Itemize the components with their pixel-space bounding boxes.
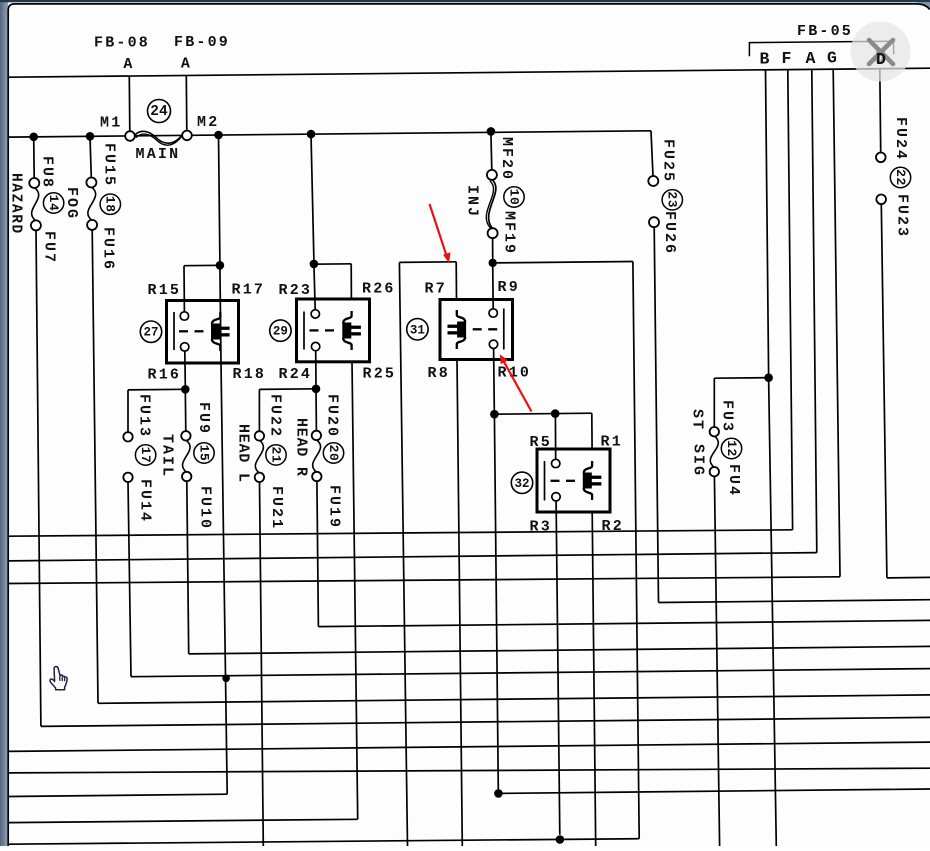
wire R18 column: [221, 363, 227, 794]
relay 31 box: [440, 300, 513, 360]
svg-text:R17: R17: [232, 281, 266, 298]
wire R25 column: [352, 362, 358, 820]
svg-text:FOG: FOG: [63, 187, 80, 220]
wire bottom horizontal (H14): [9, 839, 639, 845]
relay 29 box: [297, 299, 370, 362]
relay 29 contact bar: [303, 312, 305, 350]
wire FU10 horizontal to right edge (H6): [189, 646, 930, 654]
wire FU14 horizontal to right edge (H7): [131, 669, 930, 677]
top dark blue edge line: [0, 0, 930, 2]
wire pin B column lower: [769, 378, 777, 846]
value circle 22: [890, 167, 910, 187]
wire FU21 column lower: [260, 482, 264, 846]
relay 31 dashed link: [473, 328, 482, 330]
wire FU23 column lower: [881, 204, 887, 578]
wire FU19 horizontal to right edge (H5): [318, 620, 930, 626]
fusible link INJ element: [489, 180, 496, 229]
fuse FU4 terminal: [710, 467, 719, 476]
wire FU10 column lower: [187, 481, 189, 654]
wire B to FU3 elbow: [714, 377, 768, 380]
relay 32 contact bar: [544, 461, 546, 501]
red arrow 2: [500, 354, 532, 411]
fuse FU3 terminal: [710, 427, 719, 436]
svg-text:TAIL: TAIL: [159, 434, 176, 478]
junction dot R10/H12b: [494, 789, 503, 798]
value circle 18: [100, 194, 120, 214]
wire horizontal full width (H10): [9, 742, 930, 751]
junction dot bus/relay27 feed: [214, 131, 223, 140]
fuse FU26 terminal: [649, 217, 659, 227]
svg-text:31: 31: [410, 323, 425, 337]
svg-text:FU25: FU25: [660, 139, 677, 183]
wire FU19 column lower: [317, 481, 319, 627]
svg-text:FU9: FU9: [195, 402, 212, 435]
wire relay27 coil column: [220, 265, 221, 363]
junction dot R18/H7: [222, 675, 230, 683]
junction dot R3/H14: [556, 835, 565, 844]
fuse FU19 terminal: [312, 472, 321, 481]
svg-text:R18: R18: [233, 366, 267, 383]
relay 29 dashed link: [310, 329, 319, 331]
fuse FU9 terminal: [181, 431, 190, 440]
value circle 12 (ST SIG): [721, 438, 741, 458]
wire R24 to FU22 elbow: [259, 388, 316, 391]
svg-text:R1: R1: [601, 434, 623, 451]
svg-text:FU15: FU15: [101, 143, 118, 187]
svg-text:FB-05: FB-05: [797, 23, 853, 40]
junction dot B/FU3: [764, 373, 773, 382]
svg-text:R16: R16: [148, 367, 182, 384]
value circle 15: [194, 443, 214, 463]
svg-text:17: 17: [138, 447, 153, 464]
relay 27 contact bar: [173, 312, 175, 350]
wire R10 column lower: [494, 414, 498, 789]
relay 32 coil: [584, 461, 592, 473]
wire R15 drop: [183, 266, 185, 312]
junction dot bus/relay29 feed: [307, 130, 316, 139]
svg-text:14: 14: [46, 195, 61, 212]
fuse MF19 terminal: [488, 228, 498, 238]
svg-text:R3: R3: [530, 519, 552, 536]
svg-text:R23: R23: [279, 282, 313, 299]
wire MF19 to junction: [492, 238, 494, 259]
hand cursor: [50, 667, 67, 690]
fuse FU24 terminal: [876, 153, 886, 163]
relay 27 coil: [212, 312, 220, 324]
svg-text:FU13: FU13: [136, 394, 153, 438]
svg-text:M1: M1: [100, 115, 122, 132]
terminal M2: [182, 131, 192, 141]
wire R23 drop: [314, 264, 315, 310]
svg-text:INJ: INJ: [464, 185, 481, 218]
fuse FU20/FU19 element: [313, 440, 321, 473]
wire pin A column: [812, 69, 817, 552]
wire R5 drop: [554, 414, 556, 464]
wire R3 column: [556, 501, 560, 835]
wire FU20 feed: [315, 389, 317, 431]
svg-text:FU19: FU19: [326, 485, 343, 529]
relay 32 box: [537, 449, 610, 512]
wire horizontal full width (H11): [9, 768, 930, 773]
wire MF20 feed: [490, 131, 493, 170]
relay 31 pin circle R9: [489, 309, 497, 317]
relay 27 pin circle R15: [180, 312, 188, 320]
svg-text:MAIN: MAIN: [136, 146, 181, 163]
wire pin G column: [833, 69, 840, 577]
fuse FU21 terminal: [255, 473, 264, 482]
wire R10 junction node: [490, 410, 499, 419]
svg-text:FU16: FU16: [100, 227, 117, 271]
fuse FU8 terminal: [29, 178, 39, 188]
wire top feeder line: [9, 68, 930, 77]
svg-text:F: F: [781, 49, 793, 68]
fuse MF20 terminal: [487, 170, 497, 180]
svg-text:FB-08: FB-08: [94, 35, 150, 52]
relay 29 pin circle R23: [311, 310, 319, 318]
fuse FU10 terminal: [182, 472, 191, 481]
wire HAZARD horizontal to right edge (H9): [41, 717, 930, 726]
wire pin F column: [788, 70, 793, 530]
wire FU9 feed: [184, 389, 187, 431]
junction dot bus/HAZARD: [29, 133, 38, 142]
wire pin B column: [766, 70, 769, 374]
wire relay27 elbow to R15: [184, 264, 220, 266]
svg-text:18: 18: [103, 196, 118, 213]
svg-text:R15: R15: [148, 282, 182, 299]
wire FU23 to right edge: [887, 576, 930, 579]
svg-text:FB-09: FB-09: [174, 34, 230, 51]
junction dot relay29 feed: [310, 260, 319, 269]
value circle 17 (TAIL fuse): [135, 445, 155, 465]
junction dot MF19 node: [489, 259, 497, 267]
svg-text:FU20: FU20: [324, 394, 341, 438]
svg-text:FU24: FU24: [892, 117, 909, 161]
svg-text:M2: M2: [197, 114, 219, 131]
wire R2 column: [592, 512, 596, 846]
junction dot relay27 feed: [216, 261, 225, 270]
svg-text:32: 32: [514, 477, 529, 491]
svg-text:FU3: FU3: [719, 400, 736, 433]
svg-text:FU21: FU21: [268, 486, 285, 530]
fuse FU16 terminal: [87, 220, 97, 230]
svg-text:MF19: MF19: [501, 211, 518, 255]
svg-text:HEAD R: HEAD R: [293, 418, 310, 477]
fuse FU20 terminal: [312, 431, 321, 440]
junction dot R5 feed: [551, 409, 560, 418]
fuse FU9/FU10 element: [182, 440, 190, 472]
fuse FU14 terminal: [123, 473, 132, 482]
wire R16 drop: [184, 351, 187, 386]
svg-text:R9: R9: [498, 279, 520, 296]
relay circle 32: [511, 472, 532, 493]
svg-text:21: 21: [268, 446, 283, 463]
wire relay32 coil drop: [591, 413, 593, 449]
svg-text:R8: R8: [428, 365, 450, 382]
wire A2 drop to M2: [185, 76, 188, 132]
relay 32 dashed link: [551, 480, 560, 482]
wire HAZARD column upper: [33, 137, 36, 179]
wire bus corner to FU25: [651, 131, 653, 176]
wire FU26 horizontal to right edge (H4): [659, 600, 930, 603]
wire FU26 column lower: [654, 227, 658, 602]
svg-text:ST: ST: [689, 409, 706, 431]
wire A1 drop to M1: [128, 76, 131, 132]
wire R18 horizontal to left border (H12a): [9, 794, 227, 796]
wire R10 horizontal to relay32: [494, 413, 591, 414]
relay 27 pin circle R16: [181, 343, 189, 351]
relay 31 contact bar: [503, 309, 505, 350]
value circle 14 (FOG fuse): [43, 193, 63, 213]
svg-text:15: 15: [196, 445, 211, 462]
red arrow 1: [430, 204, 451, 263]
fuse FU7 terminal: [31, 220, 41, 230]
svg-text:R26: R26: [362, 281, 396, 298]
wire net F horizontal (H1): [9, 530, 793, 536]
svg-text:29: 29: [273, 325, 288, 339]
relay circle 29: [270, 320, 291, 341]
svg-text:HEAD L: HEAD L: [235, 424, 252, 483]
junction dot bus/FU15: [86, 132, 95, 141]
svg-text:FU8: FU8: [39, 156, 56, 189]
svg-text:FU22: FU22: [267, 394, 284, 438]
wire main bus: [9, 131, 651, 137]
value circle 23: [662, 190, 682, 210]
wire R24 drop: [315, 351, 317, 385]
wire FU14 column lower: [128, 482, 131, 677]
top-right blue corner notch: [918, 2, 930, 9]
relay circle 27: [140, 321, 161, 342]
fuse FU3/FU4 element: [710, 436, 718, 467]
fuse FU15/FU16 element: [88, 187, 96, 220]
svg-text:FU7: FU7: [41, 231, 58, 264]
relay 31 pin circle R10: [489, 340, 497, 348]
close button: [851, 22, 911, 82]
wire pin D column: [879, 69, 882, 152]
svg-text:23: 23: [665, 191, 680, 208]
fuse FU13 terminal: [123, 432, 132, 441]
wire relay27 feed from bus: [219, 135, 220, 261]
wire net G horizontal (H3): [9, 577, 840, 584]
svg-text:FU4: FU4: [725, 464, 742, 497]
relay 31 coil: [457, 310, 465, 322]
svg-text:R2: R2: [602, 518, 624, 535]
svg-text:SIG: SIG: [690, 444, 707, 477]
wire HAZARD column lower: [36, 230, 41, 727]
relay 29 coil: [343, 311, 351, 323]
wire MF19 branch down: [633, 262, 639, 839]
wire R8 column: [457, 360, 462, 847]
terminal M1: [125, 131, 135, 141]
fuse FU15 terminal: [86, 178, 96, 188]
switch MAIN curve: [135, 131, 183, 143]
svg-text:24: 24: [150, 104, 168, 120]
fuse FU22/FU21 element: [255, 440, 263, 473]
svg-text:FU14: FU14: [137, 479, 154, 523]
wire FU16 column lower: [92, 229, 98, 703]
svg-text:HAZARD: HAZARD: [8, 173, 24, 235]
value circle 10 (INJ): [504, 187, 524, 207]
svg-text:MF20: MF20: [498, 137, 515, 181]
svg-text:A: A: [181, 56, 192, 73]
svg-text:G: G: [827, 49, 839, 68]
fuse FU25 terminal: [648, 176, 658, 186]
svg-text:R24: R24: [279, 366, 313, 383]
fuse FU8/FU7 element: [32, 188, 39, 221]
relay 27 box: [167, 301, 239, 364]
wire net A horizontal (H2): [9, 553, 817, 561]
wire relay31 elbow to coil: [399, 261, 456, 264]
svg-text:R5: R5: [530, 434, 552, 451]
fuse FU22 terminal: [255, 431, 264, 440]
value circle 21: [266, 445, 286, 465]
junction dot bus/MF20: [487, 127, 496, 136]
relay circle 31: [407, 319, 428, 340]
relay 27 dashed link: [179, 330, 188, 332]
wire FU15 column upper: [90, 136, 91, 178]
connector FB-05 bracket: [749, 41, 893, 56]
relay 32 pin circle R3: [552, 493, 560, 501]
junction dot R16/FU9: [181, 385, 190, 394]
value circle 20: [323, 443, 343, 463]
svg-text:R25: R25: [363, 366, 397, 383]
wire relay29 elbow to coil: [314, 263, 351, 265]
svg-text:R7: R7: [425, 281, 447, 298]
svg-text:D: D: [876, 50, 886, 69]
svg-text:20: 20: [326, 445, 341, 462]
value circle 24 (MAIN): [148, 100, 171, 123]
svg-text:A: A: [805, 49, 817, 68]
wire MF19 branch right: [493, 262, 633, 263]
svg-text:12: 12: [724, 440, 739, 457]
svg-text:22: 22: [893, 169, 908, 186]
wire R10 horizontal to right edge (H12b): [498, 789, 930, 793]
svg-text:A: A: [123, 56, 134, 73]
fuse FU23 terminal: [876, 195, 886, 205]
relay 29 pin circle R24: [311, 342, 319, 350]
junction dot R24/FU20: [312, 385, 321, 394]
wire relay29 feed from bus: [311, 134, 314, 260]
svg-text:FU10: FU10: [197, 486, 214, 530]
wire R9 drop: [492, 263, 495, 309]
svg-text:27: 27: [143, 326, 158, 340]
relay 32 pin circle R5: [552, 459, 560, 467]
wire FU16 horizontal to right edge (H8): [98, 695, 930, 703]
wire FU4 column lower: [714, 476, 719, 846]
wire R16 to FU13 elbow: [128, 388, 185, 391]
svg-text:FU26: FU26: [661, 211, 678, 255]
svg-text:10: 10: [506, 189, 521, 206]
wire R25 horizontal to left border (H13): [9, 819, 358, 822]
wire R10 drop: [493, 348, 496, 410]
svg-text:B: B: [759, 50, 771, 69]
svg-text:FU23: FU23: [894, 194, 911, 238]
wire relay31 feed column from bottom: [399, 262, 407, 846]
